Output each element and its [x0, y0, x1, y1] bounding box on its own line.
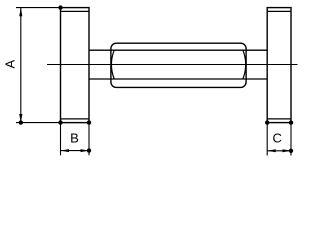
junction dot post C bottom-left	[265, 120, 269, 124]
hex left end chamfer arc	[111, 50, 114, 79]
hex upper flat line	[89, 49, 267, 51]
svg-text:C: C	[273, 131, 282, 146]
dimension B line	[61, 150, 90, 152]
junction dot post C bottom-right	[289, 120, 293, 124]
left post body	[61, 8, 90, 123]
centerline over posts	[47, 64, 298, 66]
right post bottom chamfer line	[267, 118, 291, 120]
dimension C arrowhead left	[267, 149, 276, 152]
svg-text:B: B	[70, 130, 79, 145]
dimension A arrowhead down	[19, 114, 22, 123]
dimension C line	[267, 150, 291, 152]
dimension B arrowhead right	[81, 149, 90, 152]
junction dot post bottom-left	[58, 120, 62, 124]
hex right end chamfer arc	[243, 50, 246, 79]
hex body outline	[111, 43, 246, 87]
left post top chamfer line	[61, 10, 90, 12]
dimension B extension line right	[88, 123, 90, 156]
hex lower flat line	[89, 78, 267, 80]
junction dot post top-left	[58, 5, 62, 9]
dimension C extension line right	[290, 123, 292, 156]
dimension A line	[20, 8, 22, 123]
svg-text:A: A	[3, 60, 18, 69]
right post top chamfer line	[267, 10, 291, 12]
dimension C extension line left	[266, 123, 268, 156]
left post bottom chamfer line	[61, 118, 90, 120]
junction dot dimension C right	[289, 149, 293, 153]
dimension C arrowhead right	[283, 149, 292, 152]
dimension B extension line left	[60, 123, 62, 156]
junction dot dimension A bottom	[19, 120, 23, 124]
dimension A arrowhead up	[19, 8, 22, 17]
dimension B arrowhead left	[61, 149, 70, 152]
centerline	[47, 64, 298, 66]
junction dot dimension B right	[87, 148, 91, 152]
dimension A extension line top	[16, 7, 61, 9]
dimension A extension line bottom	[16, 122, 89, 124]
junction dot post bottom-right	[87, 120, 91, 124]
right post body	[267, 8, 291, 123]
